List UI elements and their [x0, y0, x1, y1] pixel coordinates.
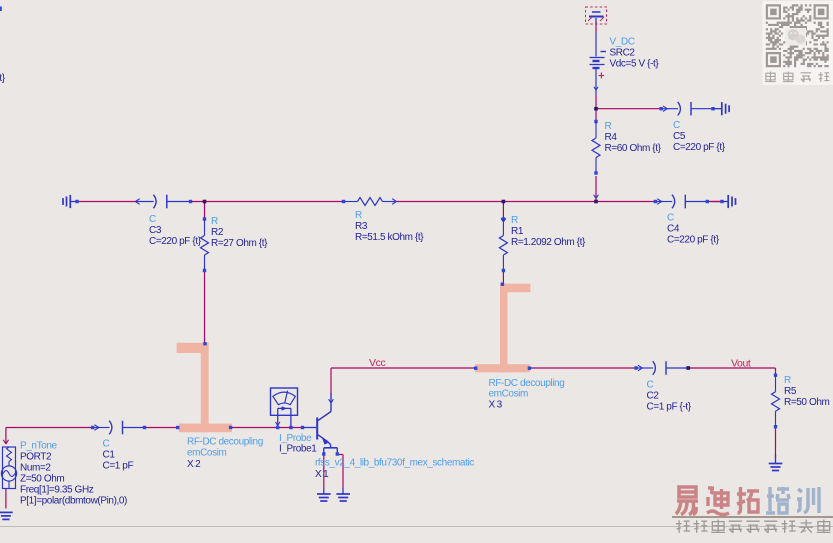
svg-text:C4: C4	[667, 224, 680, 235]
svg-text:R=27 Ohm {t}: R=27 Ohm {t}	[211, 238, 268, 249]
svg-text:Vout: Vout	[731, 358, 751, 370]
svg-text:C3: C3	[149, 225, 162, 236]
svg-text:R=50 Ohm: R=50 Ohm	[784, 397, 830, 408]
svg-text:I_Probe1: I_Probe1	[279, 444, 317, 455]
svg-text:C2: C2	[647, 391, 660, 402]
svg-text:R2: R2	[211, 227, 224, 238]
svg-text:R=51.5 kOhm {t}: R=51.5 kOhm {t}	[355, 232, 424, 243]
svg-text:R=60 Ohm {t}: R=60 Ohm {t}	[605, 143, 662, 154]
svg-text:C=220 pF {t}: C=220 pF {t}	[149, 236, 202, 247]
svg-text:P_nTone: P_nTone	[20, 441, 58, 452]
svg-text:R: R	[211, 216, 218, 227]
svg-text:C=1 pF: C=1 pF	[103, 461, 134, 472]
svg-text:SRC2: SRC2	[610, 48, 636, 59]
svg-text:Vcc: Vcc	[369, 357, 385, 369]
svg-text:PORT2: PORT2	[20, 452, 52, 463]
svg-text:C=220 pF {t}: C=220 pF {t}	[673, 142, 726, 153]
svg-text:C1: C1	[103, 450, 116, 461]
svg-text:Num=2: Num=2	[20, 463, 51, 474]
svg-text:X1: X1	[315, 469, 330, 480]
svg-text:R4: R4	[605, 132, 618, 143]
svg-text:C: C	[103, 439, 110, 450]
svg-text:Vdc=5 V {-t}: Vdc=5 V {-t}	[610, 59, 660, 70]
svg-text:R=1.2092 Ohm {t}: R=1.2092 Ohm {t}	[511, 237, 586, 248]
svg-text:P[1]=polar(dbmtow(Pin),0): P[1]=polar(dbmtow(Pin),0)	[20, 496, 127, 507]
svg-text:C: C	[647, 380, 654, 391]
svg-text:C5: C5	[673, 131, 686, 142]
svg-text:R: R	[784, 375, 791, 386]
svg-text:R: R	[605, 121, 612, 132]
svg-text:C: C	[667, 213, 674, 224]
svg-text:C=1 pF {-t}: C=1 pF {-t}	[647, 402, 692, 413]
svg-text:R1: R1	[511, 226, 524, 237]
svg-text:R: R	[355, 210, 362, 221]
svg-text:X2: X2	[187, 459, 202, 470]
svg-text:rfss_v2_4_lib_bfu730f_mex_sche: rfss_v2_4_lib_bfu730f_mex_schematic	[315, 458, 474, 469]
svg-text:Freq[1]=9.35 GHz: Freq[1]=9.35 GHz	[20, 485, 94, 496]
svg-text:I_Probe: I_Probe	[279, 433, 312, 444]
svg-text:R3: R3	[355, 221, 368, 232]
svg-text:C=220 pF {t}: C=220 pF {t}	[667, 235, 720, 246]
svg-text:R: R	[511, 215, 518, 226]
svg-text:X3: X3	[489, 400, 504, 411]
svg-text:emCosim: emCosim	[489, 389, 528, 400]
svg-text:V_DC: V_DC	[610, 37, 635, 48]
svg-text:C: C	[673, 120, 680, 131]
svg-text:RF-DC decoupling: RF-DC decoupling	[489, 378, 565, 389]
svg-text:RF-DC decoupling: RF-DC decoupling	[187, 437, 263, 448]
svg-text:Z=50 Ohm: Z=50 Ohm	[20, 474, 64, 485]
svg-text:C: C	[149, 214, 156, 225]
svg-text:R5: R5	[784, 386, 797, 397]
svg-text:emCosim: emCosim	[187, 448, 226, 459]
